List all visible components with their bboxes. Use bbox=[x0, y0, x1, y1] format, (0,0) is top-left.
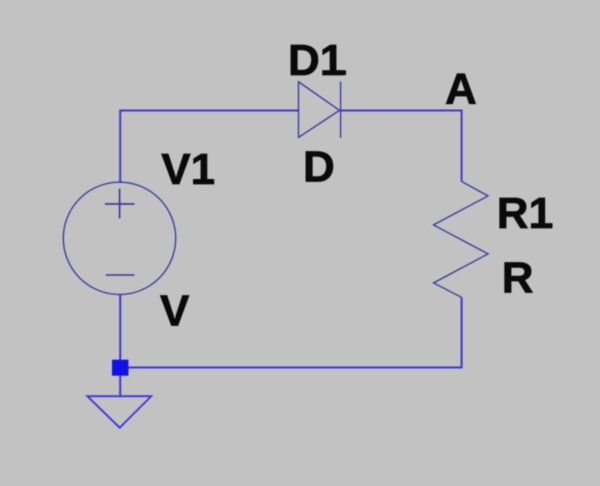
node junction square bbox=[112, 360, 128, 376]
diode D1 (triangle + cathode bar) bbox=[299, 82, 341, 138]
wire right vertical lower (resistor to bottom) bbox=[461, 297, 463, 368]
wire left bottom vertical (circle to ground) bbox=[119, 294, 121, 396]
svg-text:R1: R1 bbox=[497, 189, 553, 238]
wire top horizontal right (diode cathode to corner) bbox=[341, 110, 462, 112]
svg-text:D: D bbox=[303, 143, 335, 192]
ground bbox=[87, 396, 151, 428]
wire top-left vertical bbox=[119, 111, 121, 184]
voltage source minus sign bbox=[106, 274, 135, 276]
voltage source plus sign bbox=[105, 189, 135, 219]
svg-text:V1: V1 bbox=[161, 145, 215, 194]
voltage source V1 circle bbox=[63, 182, 175, 294]
wire right vertical upper (to resistor) bbox=[461, 110, 463, 182]
svg-text:R: R bbox=[502, 253, 534, 302]
wire bottom horizontal bbox=[119, 367, 462, 369]
wire top horizontal left (to diode anode) bbox=[119, 110, 299, 112]
svg-text:D1: D1 bbox=[288, 36, 344, 85]
svg-text:V: V bbox=[160, 287, 190, 336]
svg-text:A: A bbox=[445, 65, 477, 114]
resistor R1 zigzag bbox=[434, 181, 489, 297]
